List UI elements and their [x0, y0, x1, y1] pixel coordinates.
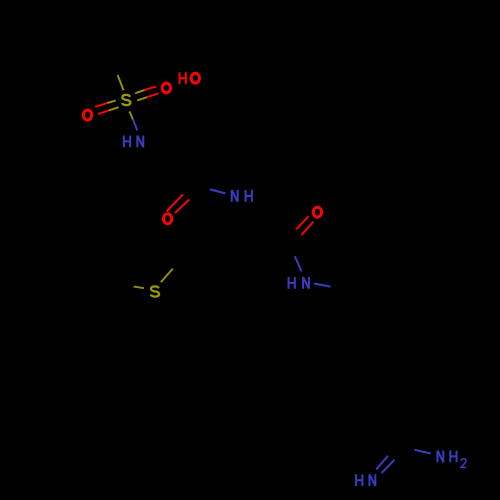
wire C5=O4 double bond left line (O half) [296, 216, 308, 229]
wire bond S1-N1 [129, 111, 133, 119]
wire C3=O3 double bond right line (O half) [175, 199, 189, 213]
wire bond S2-CH2 (S half) [161, 269, 173, 283]
wire S1=O2 double bond upper line [135, 90, 144, 93]
wire C6=N4 amidine double bond left line [376, 456, 388, 470]
wire C3=O3 double bond left line (O half) [167, 194, 184, 211]
atom N2 amide NH label [232, 190, 238, 202]
atom O1 sulfonyl oxygen left label [83, 110, 91, 120]
atom N5 amidine NH2 label [437, 451, 443, 463]
wire bond C6-N5 (N half) [414, 450, 430, 454]
wire bond N3-CH2 (N half) [314, 284, 331, 287]
wire S1=O1 double bond lower line [98, 110, 109, 114]
wire bond C3-N2 (N half) [210, 189, 226, 193]
wire C6=N4 amidine double bond right line [382, 460, 395, 473]
atom O3 amide carbonyl oxygen label [163, 214, 171, 224]
atom N4 amidine HN label [356, 474, 362, 486]
wire S1=O2 double bond lower line [137, 97, 147, 100]
wire bond S2-CH3 (S half) [134, 287, 144, 289]
atom N1 sulfonamide HN label [124, 136, 130, 148]
atom N3 amide HN label [289, 277, 295, 289]
atom S2 thioether sulfur label [151, 286, 159, 296]
atom S1 sulfonyl sulfur label [122, 95, 130, 105]
wire S1=O1 double bond upper line [95, 103, 107, 107]
wire bond C5-N3 (N half) [295, 256, 302, 271]
atom O4 amide carbonyl oxygen 2 label [313, 207, 321, 217]
atom O2 sulfonyl oxygen right label [162, 83, 170, 93]
atom O5 hydroxyl HO label [180, 72, 186, 84]
wire C5=O4 double bond right line (O half) [301, 222, 313, 236]
wire bond CH3-S1 (S half) [118, 75, 124, 90]
